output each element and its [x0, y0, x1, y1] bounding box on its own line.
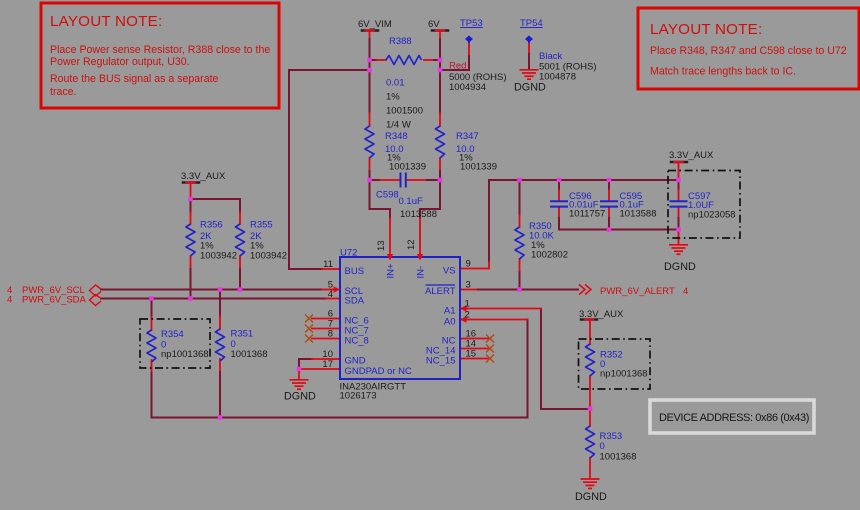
node GND-GNDPAD junction — [297, 367, 302, 372]
X mark NC_8 — [305, 335, 313, 343]
wire IN- pin drop — [419, 209, 421, 218]
svg-text:Place Power sense Resistor, R3: Place Power sense Resistor, R388 close t… — [50, 44, 270, 56]
node C597 rail tap — [676, 178, 681, 183]
U72 pin names left — [345, 266, 413, 377]
svg-text:1001500: 1001500 — [386, 106, 423, 117]
svg-text:NC_8: NC_8 — [345, 336, 369, 347]
node R388 right pin — [438, 58, 443, 63]
ground DGND under TP54 — [520, 70, 539, 79]
net 3.3V_AUX bar R352 — [581, 318, 597, 321]
svg-text:PWR_6V_ALERT: PWR_6V_ALERT — [600, 286, 675, 297]
svg-text:np1023058: np1023058 — [688, 210, 736, 221]
svg-text:6V_VIM: 6V_VIM — [358, 19, 392, 30]
off-page connector PWR_6V_SDA — [90, 295, 102, 306]
svg-text:IN-: IN- — [416, 266, 427, 279]
net 3.3V_AUX bar left — [183, 181, 199, 184]
wire ground rail y229.5 — [559, 229, 679, 231]
testpoint TP54 labels — [520, 18, 597, 83]
svg-text:1013588: 1013588 — [620, 209, 657, 220]
U72 pin numbers right — [465, 259, 477, 360]
svg-text:0.01: 0.01 — [386, 78, 405, 89]
wire R348 top lead — [369, 70, 371, 113]
svg-text:DGND: DGND — [284, 391, 316, 403]
svg-text:1002802: 1002802 — [531, 250, 568, 261]
wire R347 top lead — [439, 70, 441, 113]
wire R348 bottom lead — [369, 158, 371, 171]
wire GND pin elbow — [299, 358, 312, 360]
svg-text:DGND: DGND — [664, 261, 696, 273]
X mark NC_15 — [486, 355, 494, 363]
net 3.3V_AUX bar right — [671, 161, 687, 164]
device address callout box — [650, 400, 814, 433]
net 6V_VIM power bar — [362, 29, 378, 32]
svg-text:PWR_6V_SDA: PWR_6V_SDA — [22, 295, 87, 306]
ground DGND under C597 — [669, 245, 688, 254]
node R350 rail tap — [517, 178, 522, 183]
svg-text:Route the BUS signal as a sepa: Route the BUS signal as a separate — [50, 73, 219, 85]
wire BUS net vertical x289 — [288, 70, 290, 269]
wire NC pin 16 stub — [460, 338, 488, 340]
wire C597 top lead — [678, 180, 680, 190]
arrow A0 into U72 — [460, 316, 467, 322]
capacitor C596 labels — [569, 191, 605, 220]
svg-text:4: 4 — [7, 295, 12, 306]
svg-text:11: 11 — [323, 259, 333, 270]
wire C595 bottom lead — [608, 207, 610, 218]
capacitor C597 plates — [670, 201, 688, 206]
wire IN+ pin drop — [389, 209, 391, 218]
capacitor C598 labels — [376, 190, 437, 221]
resistor R355 labels — [250, 220, 287, 262]
wire C598 right lead — [407, 179, 427, 181]
U72 pin numbers left — [322, 259, 333, 370]
wire R352 top lead — [589, 321, 591, 345]
wire R351 top lead from SCL — [219, 290, 221, 317]
wire ALERT net to flag — [478, 289, 578, 291]
svg-text:R347: R347 — [456, 131, 479, 142]
wire C596 bottom lead — [558, 207, 560, 218]
capacitor C598 plates — [401, 173, 406, 188]
testpoint TP53 labels — [449, 18, 507, 93]
resistor R348 zigzag — [365, 126, 374, 158]
svg-text:NC_15: NC_15 — [426, 356, 456, 367]
svg-text:2: 2 — [465, 310, 470, 321]
resistor R388 labels — [386, 36, 423, 131]
U72 pin names right — [425, 266, 456, 367]
node R350 ALERT tap — [517, 287, 522, 292]
wire VS pin stub — [460, 268, 489, 270]
wire 3.3V_AUX drop to rail — [678, 163, 680, 180]
dashed box around R354 — [140, 319, 210, 368]
wire GNDPAD pin stub — [299, 368, 340, 370]
wire TP53 stem — [468, 42, 470, 56]
svg-text:DGND: DGND — [514, 82, 546, 94]
node R352-R353 junction — [588, 406, 593, 411]
svg-text:6V: 6V — [428, 19, 440, 30]
junction dots (magenta) — [149, 58, 681, 420]
node R351 bus tap — [218, 415, 223, 420]
svg-text:9: 9 — [466, 259, 471, 270]
wire TP53 net y70 — [440, 69, 469, 71]
svg-text:A0: A0 — [444, 317, 456, 328]
capacitor C597 labels — [688, 191, 736, 221]
resistor R356 labels — [200, 220, 237, 262]
svg-text:Black: Black — [539, 51, 562, 62]
svg-text:17: 17 — [322, 359, 333, 370]
svg-text:3: 3 — [466, 280, 471, 291]
svg-text:Match trace lengths back to IC: Match trace lengths back to IC. — [650, 66, 796, 78]
node R388 left pin — [367, 58, 372, 63]
node C596 rail tap — [557, 178, 562, 183]
resistor R354 zigzag — [147, 330, 156, 362]
signal label PWR_6V_ALERT — [600, 286, 688, 297]
wire DGND stem below C597 — [678, 230, 680, 245]
node R355 SCL tap — [238, 287, 243, 292]
svg-text:U72: U72 — [340, 248, 357, 259]
svg-text:np1001368: np1001368 — [600, 369, 648, 380]
svg-text:3.3V_AUX: 3.3V_AUX — [181, 171, 226, 182]
resistor R353 zigzag — [586, 426, 595, 458]
wire NC_7 stub — [312, 328, 340, 330]
wire VS rail y180 — [489, 179, 679, 181]
wire TP54 stem — [528, 42, 530, 54]
testpoint TP54 dot — [525, 36, 533, 44]
node 3.3V_AUX left tee — [188, 197, 193, 202]
svg-text:TP53: TP53 — [460, 18, 483, 29]
pin arrows (red) — [334, 254, 467, 323]
svg-text:LAYOUT NOTE:: LAYOUT NOTE: — [50, 13, 162, 30]
U72 pin numbers top (rotated) — [376, 239, 417, 251]
svg-text:3.3V_AUX: 3.3V_AUX — [669, 150, 714, 161]
resistor R352 labels — [600, 350, 648, 380]
wire 6V_VIM drop to R388 — [369, 31, 371, 39]
wire A1 pin stub — [460, 308, 541, 310]
U72 pin names top (rotated) — [386, 263, 427, 279]
wire R388 right lead — [424, 59, 434, 61]
wire R347 bottom lead — [439, 158, 441, 171]
op-amp U72 body (IC outline) — [340, 257, 460, 379]
wire DGND stem below IC — [298, 369, 300, 379]
off-page connector PWR_6V_SCL — [90, 285, 102, 296]
wire node 6V_VIM column y60-70 — [369, 60, 371, 70]
capacitor C595 plates — [600, 201, 618, 206]
svg-text:R354: R354 — [161, 329, 184, 340]
arrow A1 into U72 — [460, 305, 467, 311]
wire R351 bottom lead — [219, 359, 221, 372]
svg-text:TP54: TP54 — [520, 18, 543, 29]
capacitor C596 plates — [550, 201, 568, 206]
capacitor C595 labels — [620, 191, 657, 220]
svg-text:R356: R356 — [200, 220, 223, 231]
svg-text:SDA: SDA — [345, 296, 365, 307]
resistor R347 zigzag — [436, 126, 445, 158]
wire R353 bottom lead — [589, 458, 591, 478]
svg-text:1001339: 1001339 — [389, 162, 426, 173]
svg-text:1003942: 1003942 — [250, 251, 287, 262]
svg-text:ALERT: ALERT — [425, 286, 456, 297]
svg-text:VS: VS — [443, 266, 456, 277]
svg-text:1001368: 1001368 — [600, 452, 637, 463]
resistor R350 labels — [529, 221, 568, 261]
svg-text:LAYOUT NOTE:: LAYOUT NOTE: — [650, 21, 762, 38]
svg-text:4: 4 — [328, 289, 333, 300]
svg-text:4: 4 — [683, 286, 688, 297]
node C595 rail tap — [607, 178, 612, 183]
node R351 SCL tap — [218, 287, 223, 292]
svg-text:1003942: 1003942 — [200, 251, 237, 262]
wire IN- jog — [420, 180, 440, 209]
node R356 SDA tap — [188, 296, 193, 301]
svg-text:15: 15 — [466, 349, 477, 360]
resistor R351 labels — [231, 329, 268, 361]
wire NC_15 stub — [460, 358, 488, 360]
wire C597 bottom lead — [678, 207, 680, 218]
svg-text:12: 12 — [406, 239, 417, 250]
resistor R348 labels — [385, 131, 426, 173]
resistor R351 zigzag — [216, 329, 225, 361]
wire R354 top lead from SDA — [151, 299, 153, 318]
resistor R354 labels — [161, 329, 209, 360]
X mark NC_14 — [486, 345, 494, 353]
svg-text:GND: GND — [345, 356, 366, 367]
svg-text:1004934: 1004934 — [449, 82, 486, 93]
svg-text:1: 1 — [465, 299, 470, 310]
X mark NC_6 — [305, 315, 313, 323]
off-page connector PWR_6V_ALERT chevrons — [579, 285, 591, 295]
resistor R347 labels — [456, 131, 497, 173]
wire SDA pin stub — [326, 298, 340, 300]
wire SCL pin stub — [322, 289, 334, 291]
node R354 SDA tap — [149, 296, 154, 301]
wire node 6V column y60-70 — [439, 60, 441, 70]
wire R355 bottom lead to SCL — [239, 256, 241, 269]
svg-text:trace.: trace. — [50, 86, 77, 98]
svg-text:DGND: DGND — [575, 491, 607, 503]
svg-text:R348: R348 — [385, 131, 408, 142]
wire C595 top lead — [608, 180, 610, 190]
resistor R355 zigzag — [236, 224, 245, 256]
wire R353 top lead — [589, 409, 591, 427]
X mark NC_7 — [305, 325, 313, 333]
node C595 ground rail tap — [607, 227, 612, 232]
wire R356 bottom lead to SDA — [190, 256, 192, 269]
wire NC_8 stub — [312, 338, 340, 340]
wire R350 bottom lead — [519, 259, 521, 272]
resistor R352 zigzag — [586, 344, 595, 376]
wire BUS net horizontal y70 — [289, 69, 370, 71]
wire A0 bottom bus y417.5 — [152, 320, 528, 418]
wire VS vertical x489 — [488, 180, 490, 262]
ALERT overline — [426, 284, 456, 286]
svg-text:1001339: 1001339 — [460, 162, 497, 173]
dashed box around C597 — [668, 171, 740, 239]
resistor R388 zigzag — [386, 56, 422, 65]
wire A1 route — [541, 309, 590, 410]
ground DGND under U72 GND pin — [290, 380, 309, 389]
layout note 1 box — [41, 3, 279, 108]
svg-text:Place R348, R347 and C598 clos: Place R348, R347 and C598 close to U72 — [650, 45, 847, 57]
svg-text:13: 13 — [376, 240, 387, 251]
svg-text:GNDPAD or NC: GNDPAD or NC — [345, 366, 413, 377]
signal label PWR_6V_SCL — [7, 285, 85, 296]
svg-text:3.3V_AUX: 3.3V_AUX — [579, 309, 624, 320]
svg-text:BUS: BUS — [345, 266, 365, 277]
svg-text:R388: R388 — [389, 36, 412, 47]
svg-text:1013588: 1013588 — [400, 209, 437, 220]
testpoint TP53 dot — [465, 36, 473, 44]
svg-text:C598: C598 — [376, 190, 399, 201]
svg-text:Power Regulator output, U30.: Power Regulator output, U30. — [50, 56, 190, 68]
arrow SCL into U72 — [334, 286, 341, 292]
svg-text:0: 0 — [600, 441, 605, 452]
X mark NC pin16 — [486, 335, 494, 343]
wire IN+ jog — [370, 180, 391, 209]
no-connect X marks — [305, 315, 494, 363]
resistor R350 zigzag — [515, 227, 524, 259]
svg-text:0.1uF: 0.1uF — [399, 196, 423, 207]
resistor R356 zigzag — [186, 224, 195, 256]
wire C596 top lead — [558, 180, 560, 190]
svg-text:1011757: 1011757 — [569, 209, 605, 220]
arrow IN+ into U72 — [387, 254, 393, 261]
signal label PWR_6V_SDA — [7, 295, 87, 306]
net 6V power bar — [432, 29, 448, 32]
node C597 ground rail tap — [676, 227, 681, 232]
layout note 2 box — [638, 8, 859, 89]
svg-text:8: 8 — [328, 329, 333, 340]
node C598 right — [438, 178, 443, 183]
node BUS tap left — [367, 68, 372, 73]
svg-text:1026173: 1026173 — [340, 391, 377, 402]
dashed box around R352 — [579, 339, 651, 389]
wire R354 bottom lead — [151, 360, 153, 373]
ground DGND under R353 — [581, 479, 600, 488]
node TP53 tap right — [438, 68, 443, 73]
wire R350 top lead — [519, 180, 521, 215]
wire R388 left lead — [370, 59, 377, 61]
wire NC_14 stub — [460, 348, 488, 350]
svg-text:DEVICE ADDRESS: 0x86 (0x43): DEVICE ADDRESS: 0x86 (0x43) — [659, 412, 809, 424]
svg-text:IN+: IN+ — [386, 263, 397, 279]
wire SDA net — [101, 298, 326, 300]
svg-text:np1001368: np1001368 — [161, 349, 209, 360]
wire 6V drop to R388 — [439, 31, 441, 39]
wire R352 bottom lead — [589, 376, 591, 409]
svg-text:Red: Red — [449, 61, 466, 72]
node C598 left — [367, 178, 372, 183]
svg-text:A1: A1 — [444, 306, 456, 317]
svg-text:R351: R351 — [231, 329, 254, 340]
wire BUS pin stub — [289, 268, 322, 270]
svg-text:R355: R355 — [250, 220, 273, 231]
wire R356 top lead — [190, 199, 192, 212]
arrow IN- into U72 — [417, 254, 423, 261]
wire ALERT pin stub — [460, 289, 478, 291]
svg-text:1001368: 1001368 — [231, 349, 268, 360]
wire SCL net — [101, 289, 322, 291]
wire R355 top jog — [191, 199, 241, 212]
svg-text:1/4 W: 1/4 W — [386, 120, 411, 131]
wire 3.3V_AUX left drop — [190, 184, 192, 200]
svg-text:1%: 1% — [386, 92, 400, 103]
wire NC_6 stub — [312, 318, 340, 320]
wire C598 left lead — [370, 179, 381, 181]
wire A0 pin stub — [460, 319, 528, 321]
resistor R353 labels — [600, 431, 637, 463]
